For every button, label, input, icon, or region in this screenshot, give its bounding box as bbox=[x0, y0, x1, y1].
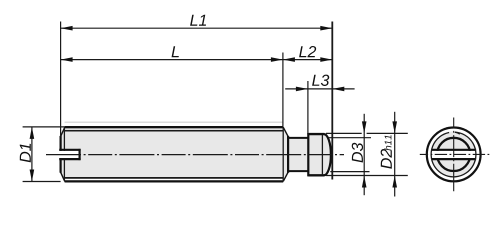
pin top edge bbox=[308, 133, 324, 135]
end view slot bottom line bbox=[431, 158, 476, 160]
extension line pin bottom right bbox=[326, 175, 408, 177]
body outline top bbox=[65, 126, 284, 128]
extension line pin top right bbox=[326, 132, 408, 134]
end view gray disc bbox=[431, 131, 477, 177]
extension line pin face bbox=[307, 81, 309, 135]
body left face edge bbox=[59, 136, 61, 173]
white gap bottom bbox=[64, 179, 283, 181]
dimension L bbox=[61, 57, 283, 62]
extension line left bbox=[60, 22, 62, 137]
extension line shoulder bbox=[282, 53, 284, 129]
dimension L2 bbox=[283, 57, 332, 62]
end view slot top line bbox=[431, 149, 476, 151]
shoulder face bbox=[287, 136, 289, 173]
chamfer diagonal bottom-right bbox=[283, 172, 288, 181]
pin bottom edge bbox=[308, 174, 324, 176]
chamfer diagonal top-left bbox=[61, 127, 65, 136]
neck bottom edge bbox=[288, 170, 308, 172]
end view thread arc hook bbox=[455, 132, 460, 134]
end view centerline horizontal bbox=[420, 153, 491, 155]
dimension D1 bbox=[30, 127, 35, 182]
pin fill bbox=[308, 134, 331, 175]
end view centerline vertical bbox=[453, 118, 455, 192]
body fill bbox=[61, 127, 289, 181]
label L1 bbox=[190, 15, 206, 26]
extension line D1 bottom bbox=[23, 181, 61, 183]
end view inner circle bbox=[437, 138, 470, 171]
end view thread circle arc bbox=[431, 132, 476, 177]
chamfer vertical line right bbox=[282, 128, 284, 180]
extension line neck bottom right bbox=[330, 171, 369, 173]
label D2 h11 bbox=[381, 135, 392, 168]
dome arc bbox=[324, 134, 331, 175]
dimension L3 bbox=[285, 87, 354, 92]
thread root line bottom bbox=[64, 177, 283, 179]
end view slot interior bbox=[427, 151, 480, 158]
chamfer diagonal bottom-left bbox=[61, 172, 65, 181]
dome tangent line bbox=[321, 135, 323, 174]
slot top line bbox=[59, 149, 80, 151]
label L2 bbox=[299, 46, 316, 57]
slot bottom line bbox=[59, 158, 80, 160]
extension line right of tip bbox=[331, 22, 333, 180]
label D3 bbox=[352, 143, 363, 163]
label D1 bbox=[20, 144, 31, 163]
neck top edge bbox=[288, 137, 308, 139]
white gap top bbox=[64, 128, 283, 130]
chamfer diagonal top-right bbox=[283, 127, 288, 136]
slot interior bbox=[59, 151, 79, 158]
label L3 bbox=[312, 75, 329, 86]
end view outer circle bbox=[427, 127, 481, 181]
dimension D2 bbox=[392, 112, 397, 197]
neck fill bbox=[288, 138, 308, 171]
slot end cap bbox=[78, 149, 80, 160]
centerline front view bbox=[46, 154, 344, 156]
label L bbox=[172, 46, 179, 57]
dimension L1 bbox=[61, 26, 333, 31]
extension line neck top right bbox=[329, 137, 371, 139]
body outline bottom bbox=[65, 180, 284, 182]
dimension D3 bbox=[362, 114, 367, 195]
extension line D1 top bbox=[23, 126, 65, 128]
thread crest faint line top bbox=[65, 121, 284, 123]
thread root line top bbox=[64, 130, 283, 132]
pin face edge bbox=[307, 133, 309, 176]
chamfer vertical line left bbox=[63, 128, 65, 180]
